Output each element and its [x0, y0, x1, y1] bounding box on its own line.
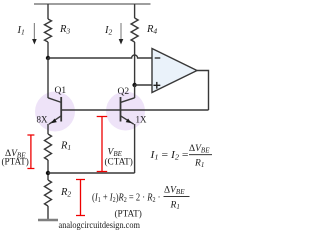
wire node A to op-amp minus input (with hop over right branch) — [48, 55, 152, 58]
svg-text:Q2: Q2 — [118, 87, 130, 97]
svg-text:ΔVBE: ΔVBE — [189, 144, 210, 155]
wire rail to R4 — [134, 4, 136, 18]
svg-text:(PTAT): (PTAT) — [115, 209, 142, 219]
wire rail to R3 — [47, 4, 49, 19]
svg-text:(PTAT): (PTAT) — [2, 157, 29, 167]
svg-text:1X: 1X — [136, 115, 148, 125]
wire op-amp output feedback loop — [197, 71, 209, 111]
svg-text:I2: I2 — [104, 25, 113, 37]
wire Q2 emitter down to junction wire — [134, 124, 136, 173]
svg-text:8X: 8X — [37, 115, 49, 125]
svg-text:I1 = I2 =: I1 = I2 = — [149, 150, 188, 162]
formula I1 = I2 = dVBE/R1 — [149, 144, 212, 169]
svg-text:R4: R4 — [146, 24, 157, 36]
svg-text:R1: R1 — [170, 201, 180, 212]
wire R4 to node B — [134, 42, 136, 85]
svg-text:ΔVBE: ΔVBE — [164, 186, 185, 197]
wire node B down to Q2 collector — [134, 85, 136, 98]
resistor R2 — [45, 180, 52, 206]
highlight circle behind Q2 — [106, 92, 145, 131]
highlight circle behind Q1 — [35, 92, 75, 132]
ground — [38, 219, 58, 222]
node A junction dot — [46, 56, 50, 60]
wire junction to Q2 emitter column — [48, 172, 135, 174]
junction dot R1/R2 — [46, 171, 50, 175]
wire base rail Q1/Q2 to feedback — [61, 109, 209, 111]
formula (I1+I2)R2 = 2 R2 dVBE/R1 — [92, 186, 190, 219]
wire node A down to Q1 collector — [47, 58, 49, 98]
wire R1 to junction — [47, 160, 49, 180]
current arrow I1 — [32, 23, 37, 45]
svg-text:Q1: Q1 — [55, 86, 67, 96]
svg-text:I1: I1 — [17, 25, 25, 37]
svg-text:R1: R1 — [60, 141, 71, 153]
transistor Q1 (8X, NPN mirrored, base on right) — [48, 97, 61, 124]
resistor R3 — [45, 19, 52, 42]
wire R3 to node A — [47, 42, 49, 58]
wire Q1 emitter to R1 — [47, 124, 49, 134]
transistor Q2 (1X, NPN, base on left) — [121, 97, 135, 124]
svg-text:analogcircuitdesign.com: analogcircuitdesign.com — [59, 220, 141, 230]
svg-text:R2: R2 — [60, 187, 71, 199]
resistor R4 — [131, 18, 138, 42]
svg-text:(CTAT): (CTAT) — [105, 157, 133, 167]
red bracket dVBE across R1 — [27, 135, 34, 169]
svg-text:(I1 + I2)R2 = 2 · R2 ·: (I1 + I2)R2 = 2 · R2 · — [92, 193, 161, 205]
wire node B to op-amp plus input — [135, 84, 152, 86]
op-amp U1 — [152, 49, 197, 93]
resistor R1 — [45, 134, 52, 160]
svg-text:R3: R3 — [59, 24, 70, 36]
red bracket (I1+I2)R2 across R2 — [76, 180, 85, 216]
red bracket VBE across Q2 emitter — [97, 117, 108, 172]
current arrow I2 — [119, 23, 124, 45]
node B junction dot — [132, 83, 136, 87]
svg-text:R1: R1 — [194, 159, 204, 170]
wire R2 to ground — [47, 206, 49, 220]
VDD top rail — [34, 3, 151, 5]
